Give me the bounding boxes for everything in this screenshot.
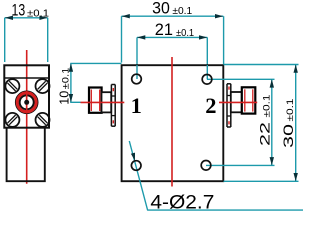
svg-text:22: 22	[258, 122, 273, 146]
red horizontal axis right connector	[219, 101, 257, 103]
svg-text:±0.1: ±0.1	[262, 95, 273, 118]
left connector nut red flats	[90, 90, 92, 112]
center connector face: red ring	[17, 93, 36, 112]
svg-text:1: 1	[131, 93, 142, 118]
left connector barrel	[102, 92, 112, 112]
left view red vertical centerline	[26, 50, 28, 184]
center connector face: red centerline overlay	[26, 91, 28, 114]
right view body	[122, 65, 224, 181]
svg-text:2: 2	[205, 93, 216, 118]
svg-text:±0.1: ±0.1	[60, 68, 71, 90]
svg-text:±0.1: ±0.1	[176, 27, 194, 39]
right connector plate	[227, 84, 231, 127]
right connector barrel	[231, 92, 242, 112]
screw bottom-right	[36, 113, 50, 127]
left view flange outline	[4, 65, 49, 127]
dimension 10±0.1 vertical line with arrows	[56, 63, 121, 104]
cyan extension right from body top-right corner	[224, 64, 299, 66]
svg-text:30: 30	[152, 0, 170, 17]
svg-text:13: 13	[12, 2, 26, 20]
screw top-right	[36, 79, 50, 93]
right connector nut	[242, 87, 256, 113]
left connector nut	[89, 88, 102, 113]
dimension 21±0.1	[137, 21, 207, 79]
hole bottom-right	[201, 161, 211, 171]
right connector nut red flats	[244, 89, 246, 111]
cyan extension into body to top-right hole	[206, 65, 208, 79]
center connector face: outer black circle	[16, 91, 38, 113]
dimension 30±0.1 right	[281, 65, 298, 182]
dimension 13±0.1	[5, 2, 49, 62]
left connector plate	[111, 85, 115, 127]
hole top-left	[132, 74, 142, 84]
dimension 30±0.1 top	[122, 0, 224, 64]
annotation 4-Ø2.7	[148, 191, 304, 213]
svg-text:10: 10	[56, 91, 71, 105]
svg-text:21: 21	[155, 21, 173, 39]
screw top-left	[5, 79, 19, 93]
cyan extension right from body bottom-right corner	[224, 180, 299, 182]
right view red vertical centerline	[171, 57, 173, 187]
screw bottom-left	[5, 113, 19, 127]
leader line for 4-Ø2.7	[129, 141, 147, 211]
svg-text:±0.1: ±0.1	[172, 5, 192, 17]
cyan extension into body to top-left hole	[136, 65, 138, 79]
center connector face: inner black circle	[20, 95, 34, 109]
cyan extension right from bottom-right hole	[206, 164, 275, 166]
hole bottom-left	[131, 161, 141, 171]
svg-text:30: 30	[281, 124, 296, 148]
left view flange top inner line	[4, 77, 49, 79]
svg-text:±0.1: ±0.1	[27, 7, 49, 19]
cyan extension right from top-right hole	[207, 78, 275, 80]
dimension 22±0.1 right	[258, 79, 274, 165]
svg-text:±0.1: ±0.1	[285, 99, 296, 122]
red horizontal axis left connector	[81, 101, 125, 103]
left view lower body	[7, 128, 45, 181]
center connector face: center pin dot	[24, 100, 29, 105]
hole top-right	[202, 75, 212, 85]
